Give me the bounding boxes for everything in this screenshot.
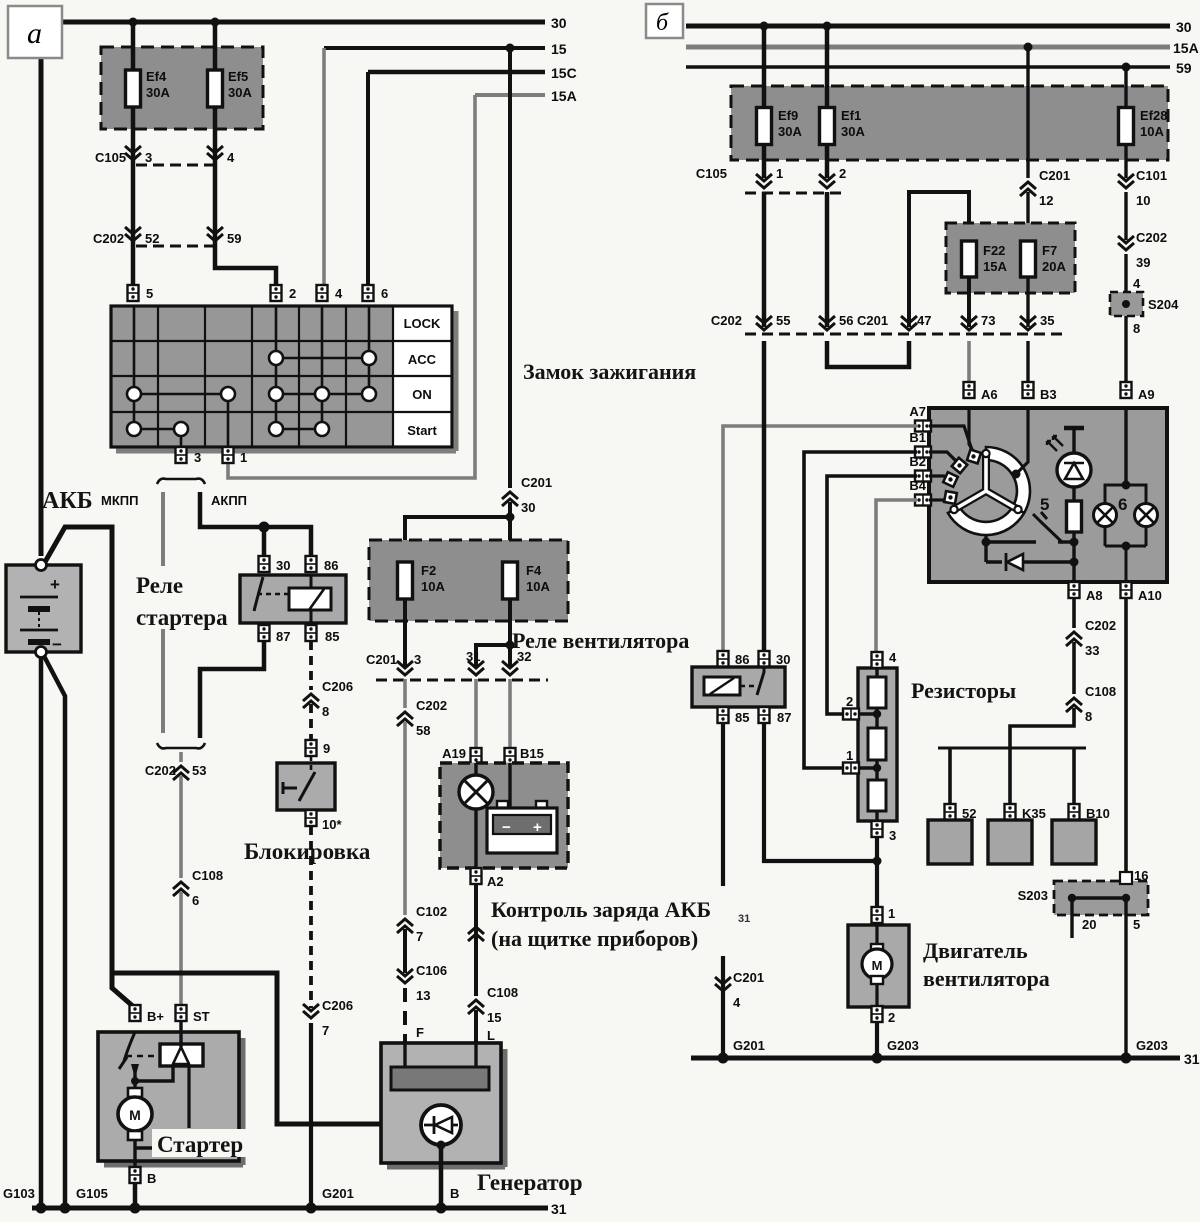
- wire motor to ground G203: [875, 1022, 879, 1058]
- wire 30 to fuse Ef9: [762, 26, 767, 108]
- svg-text:32: 32: [517, 649, 531, 664]
- svg-text:A8: A8: [1086, 588, 1103, 603]
- svg-text:G203: G203: [887, 1038, 919, 1053]
- AKPP wire to starter relay node: [200, 492, 311, 556]
- svg-text:1: 1: [846, 748, 853, 763]
- fan relay pin 30: [759, 651, 791, 667]
- svg-text:47: 47: [917, 313, 931, 328]
- battery icon on instrument panel: [487, 801, 557, 853]
- fuse box right panel: [731, 86, 1168, 160]
- fuse F4 10A: [503, 562, 551, 599]
- svg-text:7: 7: [416, 929, 423, 944]
- ignition internal bus col5: [321, 306, 324, 429]
- svg-text:6: 6: [192, 893, 199, 908]
- fuse Ef5 30A: [208, 69, 253, 107]
- svg-text:13: 13: [416, 988, 430, 1003]
- svg-text:87: 87: [276, 629, 290, 644]
- wire 15: [324, 41, 567, 57]
- connector C201 (pins 3,31,32): [366, 649, 548, 680]
- svg-text:86: 86: [324, 558, 338, 573]
- svg-text:39: 39: [1136, 255, 1150, 270]
- wire C101-10 to C202-39: [1124, 192, 1127, 240]
- svg-text:8: 8: [1085, 709, 1092, 724]
- svg-text:73: 73: [981, 313, 995, 328]
- node resistor pin 3 / relay 87 / motor: [873, 837, 882, 908]
- svg-text:30: 30: [551, 15, 567, 31]
- svg-text:2: 2: [846, 694, 853, 709]
- wire F2 to C201-3: [403, 599, 407, 667]
- pin 9: [306, 740, 331, 756]
- wire F4 down with node to pins 31,32: [476, 599, 510, 667]
- wire Ef5 to C105-4 and jog to ignition pin 2: [215, 107, 276, 285]
- A/C fuse box F22/F7: [946, 223, 1075, 293]
- fan motor (Двигатель вентилятора): [848, 925, 909, 1007]
- svg-text:56: 56: [839, 313, 853, 328]
- wire 30 (left panel top bus): [41, 15, 567, 31]
- wire pin 87 to MKPP/AKPP bracket: [200, 641, 264, 738]
- svg-text:C201: C201: [366, 652, 397, 667]
- fuse Ef9 30A: [757, 108, 803, 145]
- battery negative to ground G103: [39, 657, 44, 1208]
- connector C108-6: [173, 868, 223, 908]
- svg-text:C206: C206: [322, 679, 353, 694]
- wire lamp to pin A2: [474, 809, 477, 868]
- wire 59: [686, 60, 1192, 76]
- svg-text:+: +: [50, 575, 60, 594]
- ignition pin 2: [271, 285, 297, 301]
- svg-text:A10: A10: [1138, 588, 1162, 603]
- svg-text:15A: 15A: [1173, 40, 1199, 56]
- svg-text:59: 59: [1176, 60, 1192, 76]
- MKPP wire (gray dashed): [161, 492, 165, 733]
- ignition pin 1: [223, 447, 248, 465]
- connector C201-30: [502, 475, 552, 515]
- connector C201-4: [715, 970, 764, 1010]
- wire C202-53 to C108-6 (gray): [179, 776, 183, 878]
- fuse Ef1 30A: [820, 108, 866, 145]
- svg-text:B1: B1: [909, 430, 926, 445]
- svg-text:31: 31: [738, 913, 750, 925]
- connector C106-13: [397, 963, 447, 1003]
- svg-text:L: L: [487, 1028, 495, 1043]
- pin B2: [909, 454, 931, 482]
- wire A19 to charge lamp: [474, 763, 477, 780]
- ACC row contacts: [269, 351, 376, 365]
- pin A9: [1121, 382, 1155, 402]
- svg-text:C201: C201: [521, 475, 552, 490]
- svg-text:F22: F22: [983, 243, 1005, 258]
- connector C202 (pins 52,59): [93, 227, 241, 246]
- svg-text:C202: C202: [711, 313, 742, 328]
- MKPP/AKPP alternative bracket top: [157, 479, 205, 484]
- svg-text:3: 3: [145, 150, 152, 165]
- svg-text:ST: ST: [193, 1009, 210, 1024]
- contact diamond 4 (B4): [929, 491, 957, 504]
- wire B15 to battery icon: [508, 763, 511, 808]
- svg-text:B4: B4: [909, 478, 926, 493]
- svg-text:−: −: [52, 635, 62, 654]
- ON row contacts left: [127, 387, 235, 401]
- generator (Генератор): [381, 1043, 505, 1208]
- resistor block (Резисторы): [858, 668, 897, 821]
- svg-text:А6: А6: [981, 387, 998, 402]
- svg-text:C102: C102: [416, 904, 447, 919]
- pin A10: [1121, 582, 1162, 603]
- svg-text:86: 86: [735, 652, 749, 667]
- pin B15: [505, 746, 544, 764]
- svg-text:A19: A19: [442, 746, 466, 761]
- drop to connector B10: [1072, 748, 1076, 806]
- svg-text:F2: F2: [421, 563, 436, 578]
- contact diamond 3 (B2): [929, 472, 958, 487]
- wire 15 junction down to connector C201-30: [508, 48, 512, 488]
- connector C102-7: [397, 904, 447, 944]
- svg-text:Реле: Реле: [136, 573, 183, 598]
- svg-text:АКБ: АКБ: [42, 488, 93, 514]
- svg-text:15: 15: [487, 1010, 501, 1025]
- wire 30 (right panel): [686, 19, 1192, 35]
- B+ branch to generator: [112, 973, 421, 1124]
- svg-text:C202: C202: [1136, 230, 1167, 245]
- ground bus 31 (right panel): [691, 1051, 1200, 1067]
- svg-text:8: 8: [1133, 321, 1140, 336]
- svg-text:МКПП: МКПП: [101, 493, 138, 508]
- svg-text:B2: B2: [909, 454, 926, 469]
- wire A7 to fan relay pin 86 (gray): [723, 426, 917, 652]
- fan motor pin 2: [872, 1006, 896, 1025]
- svg-text:20: 20: [1082, 917, 1096, 932]
- thermal switch 5: [986, 495, 1074, 543]
- heater control unit box: [929, 408, 1167, 582]
- wire C201-12 to fuse F7: [1026, 192, 1029, 241]
- node feeding relay pins 30/86: [259, 522, 270, 533]
- starter relay (Реле стартера): [240, 575, 346, 623]
- wire C105-1 to C202-55: [762, 192, 767, 327]
- svg-text:C108: C108: [487, 985, 518, 1000]
- wire C105-2 to C202-56: [825, 192, 830, 327]
- wire C202-58 to C102-7 (gray): [403, 722, 407, 915]
- svg-text:C202: C202: [416, 698, 447, 713]
- wire C102-7 to C106-13: [403, 929, 407, 973]
- svg-text:30: 30: [1176, 19, 1192, 35]
- blocking switch box (Блокировка): [277, 756, 335, 810]
- ignition table shadow: [116, 311, 456, 451]
- svg-text:C108: C108: [192, 868, 223, 883]
- fan fuse box F2/F4: [369, 540, 568, 621]
- fan speed rotary switch inside control unit: [948, 447, 1030, 535]
- svg-text:Ef1: Ef1: [841, 108, 861, 123]
- svg-text:4: 4: [227, 150, 235, 165]
- battery negative to ground G105: [44, 656, 65, 1208]
- svg-text:Стартер: Стартер: [157, 1132, 243, 1157]
- ignition internal bus col1: [133, 306, 136, 429]
- ignition pin 6: [363, 285, 389, 301]
- svg-text:4: 4: [1133, 276, 1141, 291]
- ignition pin 5: [128, 285, 154, 301]
- svg-text:31: 31: [1184, 1051, 1200, 1067]
- svg-text:C105: C105: [95, 150, 126, 165]
- svg-text:Реле вентилятора: Реле вентилятора: [512, 628, 689, 653]
- wire A10 to S203 pin 16: [1124, 597, 1128, 881]
- svg-text:5: 5: [1133, 917, 1140, 932]
- panel label a: [8, 6, 62, 58]
- wire 30 to fuse Ef5: [213, 22, 218, 70]
- ground bus 31 (left panel): [32, 1201, 567, 1217]
- svg-text:A9: A9: [1138, 387, 1155, 402]
- svg-text:15A: 15A: [983, 259, 1007, 274]
- svg-text:15: 15: [551, 41, 567, 57]
- connector C202-33: [1066, 618, 1116, 658]
- connector C108-8: [1066, 684, 1116, 724]
- svg-text:M: M: [872, 958, 883, 973]
- svg-text:C108: C108: [1085, 684, 1116, 699]
- starter (Стартер): [98, 1021, 243, 1167]
- wire F7 to C201-35: [1026, 277, 1029, 327]
- svg-text:АКПП: АКПП: [211, 493, 247, 508]
- svg-text:15C: 15C: [551, 65, 577, 81]
- svg-text:58: 58: [416, 723, 430, 738]
- svg-text:Двигатель: Двигатель: [923, 938, 1028, 963]
- svg-text:7: 7: [322, 1023, 329, 1038]
- connector C206-7: [303, 998, 353, 1038]
- svg-text:F7: F7: [1042, 243, 1057, 258]
- wire 30 to fuse Ef4: [131, 22, 136, 70]
- svg-text:1: 1: [888, 906, 895, 921]
- svg-text:10A: 10A: [1140, 124, 1164, 139]
- U-link C202-56 to C201-47: [827, 341, 909, 367]
- wire C201-3 to C202-58 (gray): [403, 679, 407, 708]
- wire C108-8 to illumination feed bus: [1010, 708, 1074, 806]
- svg-text:Резисторы: Резисторы: [911, 678, 1016, 703]
- wire C206-7 to ground G201: [309, 1023, 313, 1208]
- svg-text:S204: S204: [1148, 297, 1179, 312]
- svg-text:G201: G201: [733, 1038, 765, 1053]
- svg-text:Ef9: Ef9: [778, 108, 798, 123]
- svg-text:20A: 20A: [1042, 259, 1066, 274]
- connector C206-8: [303, 679, 353, 719]
- svg-text:85: 85: [735, 710, 749, 725]
- wire 15A down and left to ignition pin 1: [228, 95, 475, 478]
- svg-text:87: 87: [777, 710, 791, 725]
- starter pin ST: [176, 1005, 210, 1024]
- wire B4 to resistor pin 4 (gray): [876, 500, 917, 652]
- svg-text:15A: 15A: [551, 88, 577, 104]
- wire C201-35 to pin B3: [1026, 341, 1029, 381]
- wire starter B to ground: [133, 1183, 138, 1208]
- connector box 52: [928, 820, 972, 864]
- wire branch to fuse F2: [405, 517, 510, 562]
- svg-text:4: 4: [733, 995, 741, 1010]
- svg-text:C202: C202: [93, 231, 124, 246]
- svg-text:6: 6: [381, 286, 388, 301]
- svg-text:B15: B15: [520, 746, 544, 761]
- wire from 30 bus down the left edge to battery: [39, 22, 44, 556]
- wire 59 to fuse Ef28: [1124, 67, 1127, 108]
- svg-text:3: 3: [194, 450, 201, 465]
- svg-text:8: 8: [322, 704, 329, 719]
- wire 15 down to ignition pin 4: [322, 48, 326, 285]
- svg-text:31: 31: [466, 649, 480, 664]
- resistor pin 2: [843, 694, 859, 720]
- svg-text:G105: G105: [76, 1186, 108, 1201]
- resistor pin 1: [843, 748, 859, 774]
- B+ wire from battery positive: [45, 527, 135, 1008]
- starter relay pin 30: [259, 556, 291, 573]
- svg-text:C202: C202: [145, 763, 176, 778]
- starter pin B+: [130, 1005, 165, 1024]
- rotary contact from B3: [1012, 408, 1029, 479]
- ignition internal bus col2 to pin 3: [180, 429, 183, 447]
- pin 10*: [306, 810, 343, 832]
- svg-text:A2: A2: [487, 874, 504, 889]
- svg-text:10*: 10*: [322, 817, 342, 832]
- svg-text:В3: В3: [1040, 387, 1057, 402]
- pin K35: [1005, 804, 1046, 821]
- Start row contacts right: [269, 422, 329, 436]
- svg-text:30A: 30A: [228, 85, 252, 100]
- illumination lamps 6: [1094, 408, 1158, 583]
- connector box B10: [1052, 820, 1096, 864]
- svg-text:10A: 10A: [421, 579, 445, 594]
- svg-text:55: 55: [776, 313, 790, 328]
- svg-text:5: 5: [1040, 495, 1049, 514]
- fuse F22 15A: [962, 241, 1008, 277]
- svg-text:30A: 30A: [841, 124, 865, 139]
- svg-text:б: б: [656, 10, 669, 36]
- wire relay 85 to ground G201: [721, 723, 725, 1058]
- svg-text:59: 59: [227, 231, 241, 246]
- svg-text:Start: Start: [407, 423, 437, 438]
- svg-text:85: 85: [325, 629, 339, 644]
- wire C202-55 to fan relay pin 30: [762, 341, 767, 652]
- connector C202-53: [145, 763, 207, 780]
- svg-text:30: 30: [776, 652, 790, 667]
- svg-text:1: 1: [776, 166, 783, 181]
- wire 15C: [368, 65, 577, 81]
- connector C202-58: [397, 698, 447, 738]
- ignition internal bus col6: [368, 306, 371, 394]
- node after C201-30: [508, 502, 512, 562]
- svg-text:9: 9: [323, 741, 330, 756]
- svg-text:C201: C201: [733, 970, 764, 985]
- wire A2 down to C108-15: [474, 884, 478, 996]
- wire C202-39 to S204 pin 4: [1124, 254, 1127, 292]
- wire C201-32 down to pin B15 (gray): [508, 679, 512, 750]
- fuse F7 20A: [1021, 241, 1067, 277]
- fuse F2 10A: [398, 562, 446, 599]
- svg-text:Генератор: Генератор: [477, 1170, 583, 1195]
- resistor pin 3: [872, 821, 897, 843]
- connector line C202(55,56)/C201(47,73,35): [711, 313, 1062, 334]
- svg-text:2: 2: [839, 166, 846, 181]
- pin A19: [442, 746, 481, 764]
- connector C108-15: [468, 985, 518, 1025]
- svg-text:ON: ON: [412, 387, 432, 402]
- svg-text:3: 3: [889, 828, 896, 843]
- wire pin 85 to C206-8 (dashed): [309, 641, 313, 690]
- pin B3: [1023, 382, 1057, 402]
- svg-text:стартера: стартера: [136, 605, 228, 630]
- wire C108-15 to generator L: [474, 1010, 478, 1067]
- svg-text:C201: C201: [1039, 168, 1070, 183]
- wire Ef4 to C105-3: [131, 107, 136, 285]
- resistor pin 4: [872, 650, 898, 668]
- fan relay pin 86: [718, 651, 750, 667]
- svg-text:F: F: [416, 1025, 424, 1040]
- svg-text:30A: 30A: [146, 85, 170, 100]
- svg-text:33: 33: [1085, 643, 1099, 658]
- pin A2: [471, 868, 504, 889]
- svg-text:C101: C101: [1136, 168, 1167, 183]
- ignition pin 3: [176, 447, 202, 465]
- svg-text:12: 12: [1039, 193, 1053, 208]
- wire C108-6 to starter ST (gray): [179, 892, 183, 1005]
- svg-text:4: 4: [889, 650, 897, 665]
- svg-text:Ef28: Ef28: [1140, 108, 1167, 123]
- label Стартер: [152, 1129, 252, 1157]
- wire 30 to fuse Ef1: [825, 26, 830, 108]
- wire bracket to C202-53 (gray): [179, 752, 183, 762]
- connector C201-12: [1020, 168, 1070, 208]
- MKPP/AKPP bracket bottom: [157, 743, 205, 748]
- svg-text:Контроль заряда АКБ: Контроль заряда АКБ: [491, 897, 711, 922]
- Start row contacts left: [127, 422, 188, 436]
- wire 15A down through fuse box: [1026, 47, 1029, 178]
- wire Ef28 to C101-10: [1124, 145, 1127, 178]
- wire C201-47 up and over to fuse F22: [909, 192, 969, 327]
- svg-text:B: B: [450, 1186, 459, 1201]
- svg-text:10A: 10A: [526, 579, 550, 594]
- svg-text:(на щитке приборов): (на щитке приборов): [491, 926, 698, 951]
- ON row contacts right: [269, 387, 376, 401]
- pin B10: [1069, 804, 1110, 821]
- pin A6: [964, 382, 998, 402]
- ignition internal bus col3 to pin 1: [227, 394, 230, 447]
- svg-text:C106: C106: [416, 963, 447, 978]
- fuse box EF4/EF5: [101, 47, 263, 129]
- fuse Ef28 10A: [1119, 108, 1168, 145]
- fan motor pin 1: [872, 906, 896, 923]
- svg-text:31: 31: [551, 1201, 567, 1217]
- fan motor relay: [692, 667, 785, 707]
- svg-text:52: 52: [145, 231, 159, 246]
- connector C101-10: [1118, 168, 1167, 208]
- svg-text:35: 35: [1040, 313, 1054, 328]
- contact diamond 1 (A7/A6): [929, 408, 981, 463]
- switch S204: [1110, 292, 1179, 316]
- svg-text:B+: B+: [147, 1009, 164, 1024]
- wire pin 10* to C206-7 (dashed): [309, 826, 313, 1008]
- svg-text:1: 1: [240, 450, 247, 465]
- svg-text:5: 5: [146, 286, 153, 301]
- diode inside control unit: [986, 553, 1074, 571]
- starter relay pin 86: [306, 556, 339, 573]
- svg-text:вентилятора: вентилятора: [923, 966, 1050, 991]
- svg-text:LOCK: LOCK: [404, 316, 441, 331]
- connector C105 (pins 1,2) right panel: [696, 166, 846, 193]
- illumination bus: [938, 747, 1086, 750]
- wire B1 to resistor pin 1: [804, 452, 917, 768]
- starter relay pin 85: [306, 625, 340, 644]
- pin B4: [909, 478, 931, 506]
- wire C201-73 to pin A6 (gray): [967, 341, 971, 381]
- starter pin B: [130, 1167, 157, 1186]
- LED with dropping resistor: [1047, 428, 1091, 583]
- wire C202-33 to C108-8: [1072, 642, 1076, 694]
- charge indicator lamp: [459, 775, 493, 809]
- svg-text:2: 2: [888, 1010, 895, 1025]
- wire relay 87 to resistor pin 3 node: [764, 723, 877, 861]
